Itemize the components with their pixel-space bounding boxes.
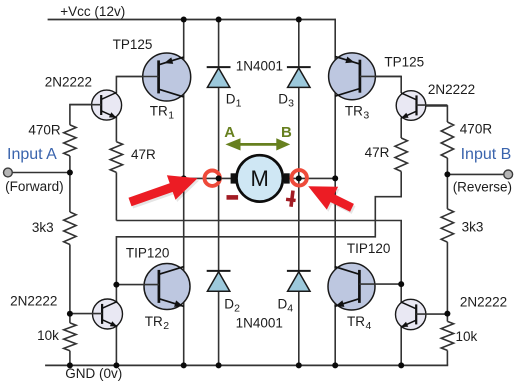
svg-text:TR: TR — [145, 314, 163, 329]
transistor TR2 TIP120 (NPN) — [144, 264, 190, 310]
junction Input B node — [444, 171, 450, 177]
svg-text:+Vcc (12v): +Vcc (12v) — [60, 4, 125, 19]
wire 470R bottom to Input A node to 3k3 — [69, 156, 71, 212]
wire left input column x=70 (470R top corner + base feed) — [70, 105, 101, 125]
junction motor-left/D1-D2 (node A) — [216, 175, 222, 181]
svg-text:TR: TR — [347, 314, 365, 329]
label 470R left — [28, 123, 61, 138]
svg-text:B: B — [281, 124, 292, 141]
junction TR4 base node — [398, 281, 404, 287]
label TR4 — [347, 314, 372, 332]
svg-text:47R: 47R — [365, 145, 390, 160]
label 3k3 left — [32, 220, 54, 235]
svg-text:470R: 470R — [460, 121, 493, 136]
label 2N2222 lower-left — [10, 293, 57, 308]
annotation red ring highlighting node A — [205, 171, 220, 186]
diode D4 1N4001 — [287, 271, 311, 291]
wire Input B lead — [447, 173, 504, 175]
annotation red arrow pointing to node B — [308, 186, 355, 214]
label D2 — [224, 296, 240, 314]
svg-text:47R: 47R — [131, 147, 156, 162]
wire TR2 base node down through 2N2222 to GND — [115, 285, 117, 366]
diode D1 1N4001 — [207, 67, 231, 87]
motor M terminals — [231, 173, 290, 183]
label TP125 (TR1) — [113, 37, 153, 52]
wire 47R bottom to cross-wire corner — [115, 172, 117, 220]
diode D3 1N4001 — [287, 67, 311, 87]
junction GND/D2 — [216, 362, 222, 368]
svg-text:2N2222: 2N2222 — [428, 82, 475, 97]
svg-text:2: 2 — [163, 320, 169, 332]
resistor 470R (left) — [64, 125, 76, 156]
svg-text:GND (0v): GND (0v) — [65, 366, 122, 381]
label (Reverse) — [453, 179, 512, 194]
svg-text:2: 2 — [234, 302, 240, 314]
label TR2 — [145, 314, 170, 332]
wire cross-couple lower (right 47R to TR2 base node) — [116, 171, 401, 284]
wire TR1 base — [116, 76, 158, 78]
transistor driver upper-right 2N2222 — [396, 91, 447, 121]
label TIP120 (TR2) — [126, 245, 170, 260]
junction +Vcc/D3 — [296, 17, 302, 23]
label B (direction) — [281, 124, 292, 141]
label 47R right — [365, 145, 390, 160]
label D3 — [278, 92, 294, 110]
wire 10k bottom to GND — [69, 351, 71, 366]
wire TR3 base — [360, 75, 401, 77]
resistor 3k3 (left) — [64, 212, 76, 245]
label 47R left — [131, 147, 156, 162]
svg-text:D: D — [278, 92, 288, 107]
transistor TR3 TP125 (PNP) — [329, 53, 376, 100]
junction lower-left base node — [67, 311, 73, 317]
annotation red arrow pointing to node A — [129, 175, 200, 208]
svg-text:D: D — [278, 296, 288, 311]
wire motor horizontal (node A to node B) — [184, 177, 336, 179]
svg-text:Input A: Input A — [7, 146, 57, 163]
annotation direction arrow A-B (olive double arrow) — [225, 138, 290, 150]
wire right 2N2222 emitter down to 47R (right) — [400, 118, 402, 139]
svg-text:3: 3 — [363, 110, 369, 122]
svg-text:D: D — [224, 296, 234, 311]
junction motor-left/TR1-TR2 — [181, 175, 187, 181]
svg-text:1: 1 — [168, 110, 174, 122]
resistor 47R (right) — [395, 138, 407, 171]
label 470R right — [460, 121, 493, 136]
svg-text:(Forward): (Forward) — [5, 179, 64, 194]
label 10k right — [456, 329, 478, 344]
label D4 — [278, 296, 294, 314]
wire 10k bottom corner to GND rail (right) — [446, 350, 448, 365]
svg-text:TIP120: TIP120 — [347, 241, 391, 256]
label A (direction) — [224, 124, 235, 141]
resistor 470R (right) — [441, 122, 453, 158]
junction GND/2N2222-left-emitter — [113, 362, 119, 368]
annotation minus polarity mark (dark red) — [227, 195, 239, 200]
svg-text:2N2222: 2N2222 — [45, 75, 92, 90]
label 1N4001 bottom — [236, 315, 283, 330]
svg-text:10k: 10k — [37, 328, 59, 343]
label 10k left — [37, 328, 59, 343]
label Input B — [461, 146, 512, 163]
label 2N2222 upper-right — [428, 82, 475, 97]
svg-text:TIP120: TIP120 — [126, 245, 170, 260]
transistor driver upper-left 2N2222 — [70, 90, 122, 120]
junction +Vcc/D1 — [216, 17, 222, 23]
junction GND/TR4-emitter — [332, 362, 338, 368]
motor M — [237, 155, 283, 201]
junction lower-right base node — [444, 311, 450, 317]
svg-text:(Reverse): (Reverse) — [453, 179, 512, 194]
transistor driver lower-left 2N2222 — [70, 299, 123, 329]
wire TR3 base feed corner (right 2N2222 collector up) — [360, 76, 402, 93]
junction GND/TR2-emitter — [181, 362, 187, 368]
junction GND/2N2222-right-emitter — [398, 362, 404, 368]
svg-text:D: D — [226, 92, 236, 107]
junction TR2 base node — [113, 282, 119, 288]
svg-text:4: 4 — [287, 302, 293, 314]
wire GND rail (bottom, y=365.4) — [45, 364, 448, 366]
label TR3 — [345, 104, 370, 122]
label TR1 — [150, 104, 175, 122]
annotation red ring highlighting node B — [292, 170, 307, 185]
annotation plus polarity mark (dark red) — [285, 190, 297, 207]
junction GND/D4 — [296, 362, 302, 368]
wire column D3/D4 x=298.8 — [298, 20, 300, 366]
junction Input A node — [67, 170, 73, 176]
label GND (0v) — [65, 366, 122, 381]
transistor TR1 TP125 (PNP) — [143, 53, 191, 101]
resistor 47R (left) — [110, 142, 122, 173]
label TIP120 (TR4) — [347, 241, 391, 256]
svg-text:TR: TR — [345, 104, 363, 119]
terminal Input B — [504, 170, 513, 179]
wire TR2 base — [116, 284, 159, 286]
svg-text:M: M — [251, 166, 269, 191]
wire cross-couple upper (left 47R to TR4 base node) — [116, 221, 401, 285]
wire column TR1/TR2 collectors-emitters x=183.7 — [183, 20, 185, 366]
label D1 — [226, 92, 242, 110]
label TP125 (TR3) — [384, 55, 424, 70]
svg-text:4: 4 — [366, 320, 372, 332]
resistor 10k (right) — [441, 321, 453, 350]
label 3k3 right — [462, 220, 484, 235]
wire TR4 base — [359, 283, 401, 285]
svg-text:1N4001: 1N4001 — [236, 58, 283, 73]
wire 2N2222 emitter down to 47R (left) — [115, 117, 117, 142]
svg-text:A: A — [224, 124, 235, 141]
wire right input column top corner (base feed) — [426, 106, 447, 122]
resistor 3k3 (right) — [441, 209, 453, 242]
wire Input A lead — [12, 172, 70, 174]
svg-text:1: 1 — [236, 98, 242, 110]
junction motor-right/TR3-TR4 — [332, 175, 338, 181]
label (Forward) — [5, 179, 64, 194]
wire column D1/D2 x=218.6 — [218, 20, 220, 366]
wire TR4 base node down through 2N2222 to GND — [400, 284, 402, 365]
svg-text:470R: 470R — [28, 123, 61, 138]
transistor driver lower-right 2N2222 — [396, 299, 448, 329]
wire 3k3 bottom to lower base node (right) — [446, 242, 448, 314]
wire column TR3/TR4 x=335.2 (from +Vcc corner to GND) — [334, 20, 337, 366]
terminal Input A — [4, 168, 13, 177]
wire lower base node to 10k (right) — [446, 314, 448, 322]
label 1N4001 top — [236, 58, 283, 73]
diode D2 1N4001 — [207, 271, 231, 291]
wire 3k3 bottom to lower base node — [69, 245, 71, 323]
svg-text:TR: TR — [150, 104, 168, 119]
label +Vcc (12v) — [60, 4, 125, 19]
transistor TR4 TIP120 (NPN) — [328, 263, 375, 310]
wire +Vcc rail (top, y=19.5) — [48, 19, 336, 21]
svg-text:Input B: Input B — [461, 146, 512, 163]
junction motor-right/D3-D4 (node B) — [296, 175, 302, 181]
svg-text:10k: 10k — [456, 329, 478, 344]
label 2N2222 upper-left — [45, 75, 92, 90]
svg-text:2N2222: 2N2222 — [460, 295, 507, 310]
resistor 10k (left) — [64, 323, 76, 351]
label 2N2222 lower-right — [460, 295, 507, 310]
svg-text:3k3: 3k3 — [462, 220, 484, 235]
svg-text:TP125: TP125 — [384, 55, 424, 70]
junction +Vcc/TR1 — [181, 17, 187, 23]
svg-text:2N2222: 2N2222 — [10, 293, 57, 308]
svg-text:TP125: TP125 — [113, 37, 153, 52]
wire TR1 base feed corner (2N2222 collector up) — [116, 77, 158, 94]
junction GND/10k-left — [67, 362, 73, 368]
label Input A — [7, 146, 57, 163]
svg-text:3k3: 3k3 — [32, 220, 54, 235]
svg-text:1N4001: 1N4001 — [236, 315, 283, 330]
wire 470R bottom to Input B node to 3k3 — [446, 158, 448, 209]
svg-text:3: 3 — [288, 98, 294, 110]
